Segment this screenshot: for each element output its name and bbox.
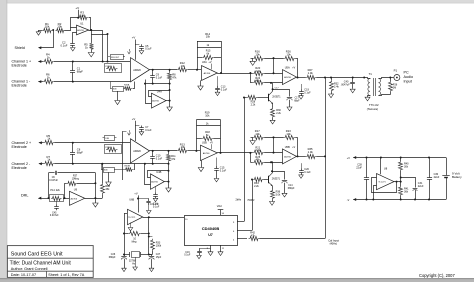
svg-text:+V: +V — [134, 192, 138, 196]
U1 output wire right and down to channel 1 network — [89, 31, 103, 62]
resistor R33 100k — [149, 236, 153, 238]
svg-text:U6B: U6B — [129, 199, 134, 202]
+V terminal battery rail — [353, 156, 356, 159]
svg-text:10k: 10k — [57, 25, 62, 29]
cap C31 22uF on divider mid — [401, 178, 416, 188]
resistor R20 input to U5A — [250, 73, 252, 83]
resistor R6 — [43, 79, 54, 83]
svg-text:0.047uF: 0.047uF — [50, 214, 59, 217]
svg-text:U9: U9 — [74, 188, 78, 192]
svg-text:0.047uF: 0.047uF — [49, 179, 58, 182]
svg-text:0.1uF: 0.1uF — [153, 206, 160, 209]
svg-text:22uF: 22uF — [418, 185, 424, 188]
-V terminal — [353, 198, 356, 201]
resistor R8 47k from output line to ref rail — [169, 70, 171, 73]
svg-text:0.1uF: 0.1uF — [184, 254, 191, 257]
input filter box ch1 lower with resistor R40A — [113, 87, 124, 92]
Q2 collector to U5B input node — [272, 162, 274, 173]
crystal X1 32768 Hz — [124, 254, 130, 256]
U7 pin 4 with resistor R42 to cal output — [237, 238, 247, 240]
summing vertical wire — [325, 78, 327, 239]
cap C26 680pF — [124, 255, 126, 257]
svg-text:PC: PC — [404, 71, 409, 75]
Q2 emitter to R36 and ground — [272, 186, 274, 190]
Q1 collector to U5A input node — [272, 83, 274, 91]
decoupling cap C7 — [135, 125, 139, 127]
op-amp U3B AD706 — [201, 145, 218, 160]
cap C14 with ground — [273, 172, 285, 180]
svg-text:AD706: AD706 — [77, 29, 84, 32]
cap C28 22uF — [366, 157, 368, 159]
Q1 emitter to R30 and ground — [272, 104, 274, 108]
capacitor C1 between channel 1 lines — [72, 62, 74, 71]
left feedback vertical — [124, 213, 127, 215]
wire R1-R2 junction down to shield line — [52, 29, 54, 31]
U4B feedback loop — [148, 171, 169, 178]
ground below ch2 lower box — [108, 172, 110, 182]
feedback verticals — [273, 58, 275, 73]
ground below U6 + input — [130, 223, 132, 228]
svg-text:U7: U7 — [208, 233, 213, 237]
crystal case ground — [135, 257, 137, 267]
op-amp U9 DRL driver — [70, 191, 85, 205]
op-amp U4A reference buffer — [152, 93, 167, 108]
svg-text:2.2k: 2.2k — [276, 112, 281, 115]
svg-text:+V: +V — [210, 142, 213, 145]
svg-text:10k: 10k — [255, 132, 260, 136]
wire channel 2- reference rail — [39, 163, 44, 165]
transistor Q2 2N3571 — [268, 176, 270, 184]
svg-text:Electrode: Electrode — [12, 166, 27, 170]
capacitor C8 between channel 2 lines — [72, 143, 74, 153]
svg-text:R40B: R40B — [125, 166, 131, 168]
svg-text:TLC271: TLC271 — [128, 217, 136, 219]
svg-text:DRL: DRL — [21, 194, 28, 198]
svg-text:Author: Grant Connell: Author: Grant Connell — [11, 267, 48, 271]
safety resistor R13 45k to channel 2- rail — [102, 164, 104, 184]
resistor R12b — [177, 148, 188, 152]
IC U7 CD4040B — [185, 216, 238, 246]
op-amp U8 virtual ground — [380, 157, 382, 159]
ground below R5 — [88, 53, 94, 57]
svg-text:U5A: U5A — [285, 66, 290, 70]
svg-text:0.1uF: 0.1uF — [145, 48, 152, 51]
resistor 10 Meg feedback — [128, 231, 141, 235]
U2B output wire — [150, 150, 178, 152]
svg-text:1M: 1M — [80, 13, 85, 17]
U1 non-inverting input with cap C2 to ground — [73, 33, 77, 42]
vertical to U4B + input — [145, 164, 151, 185]
T1 secondary wires — [379, 78, 394, 79]
svg-text:T1: T1 — [369, 72, 373, 76]
svg-text:U3A: U3A — [202, 61, 207, 64]
resistor R24 — [253, 80, 265, 84]
op-amp U5A AD706 — [283, 70, 297, 85]
svg-text:68pF: 68pF — [294, 100, 300, 103]
channel 1 - terminal — [38, 80, 41, 83]
svg-text:U1: U1 — [80, 21, 84, 25]
svg-text:45k: 45k — [256, 158, 261, 162]
input filter box ch2 lower with resistor R40B — [104, 168, 115, 173]
svg-text:100k: 100k — [156, 244, 162, 247]
wire channel 2+ line — [39, 142, 44, 144]
wire R12 to U3 — [188, 69, 201, 71]
U7 Vdd pin 16 — [220, 210, 222, 215]
svg-text:5.0k: 5.0k — [276, 194, 281, 197]
resistor R21 input to U5B — [250, 153, 252, 162]
svg-text:2.4k: 2.4k — [334, 85, 339, 88]
ground below U4B — [166, 188, 172, 192]
main output line to transformer — [316, 77, 364, 79]
resistor R12 — [177, 67, 188, 71]
-V arrow left of U2B — [129, 130, 131, 133]
U8 inverting input feedback loop — [372, 178, 397, 193]
bottom gray bar — [0, 278, 474, 279]
battery BT1 9V on right vertical — [446, 158, 448, 176]
wire second bootstrap drop — [107, 34, 109, 62]
svg-text:2N3571: 2N3571 — [272, 178, 281, 181]
svg-text:Electrode: Electrode — [12, 145, 27, 149]
svg-text:10Meg: 10Meg — [72, 177, 80, 180]
svg-text:680pF: 680pF — [109, 256, 116, 259]
shield terminal — [38, 46, 41, 49]
resistor R32 to ground on main line — [331, 78, 333, 81]
svg-text:0.1uF: 0.1uF — [220, 169, 227, 172]
svg-text:+V: +V — [347, 157, 350, 160]
svg-text:AD706: AD706 — [71, 197, 78, 200]
resistor R25 — [253, 160, 265, 164]
svg-text:68pF: 68pF — [77, 151, 84, 155]
wire channel 1+ line — [38, 61, 43, 63]
svg-text:Audio: Audio — [404, 75, 414, 79]
svg-text:2.2k: 2.2k — [251, 103, 256, 106]
cal output wire from U7 — [261, 238, 326, 240]
op-amp U5B AD706 — [283, 149, 297, 164]
resistor R11 47k to rail — [168, 151, 170, 154]
svg-text:700Hz: 700Hz — [247, 199, 255, 202]
svg-text:0.1uF: 0.1uF — [145, 129, 152, 132]
svg-text:Meg: Meg — [132, 240, 137, 243]
resistor R27 output — [297, 77, 306, 79]
gain trimpot box ch2 — [105, 145, 122, 154]
svg-text:AD706: AD706 — [284, 156, 291, 159]
svg-text:15pF: 15pF — [156, 256, 162, 259]
resistor R34 at Q2 base — [251, 179, 253, 181]
channel 1 + terminal — [38, 60, 41, 63]
svg-text:P1 10k: P1 10k — [106, 66, 113, 68]
resistor R35 output — [297, 156, 306, 158]
wire into U9 — [63, 198, 69, 200]
op-amp U1 AD706 — [77, 25, 89, 35]
svg-text:(Tamura): (Tamura) — [367, 107, 378, 111]
svg-text:(40Hz): (40Hz) — [330, 243, 338, 246]
cap C19 below U5A — [301, 84, 303, 89]
resistor R16 with ground — [253, 56, 265, 60]
svg-text:Title: Dual Channel AM Unit: Title: Dual Channel AM Unit — [10, 261, 72, 267]
svg-text:AD620: AD620 — [133, 150, 141, 153]
svg-text:Sound Card EEG Unit: Sound Card EEG Unit — [11, 251, 63, 257]
ground below U3B — [201, 161, 203, 168]
svg-text:U5B: U5B — [285, 145, 290, 149]
gain trimpot box ch1 — [105, 64, 122, 73]
svg-text:10k: 10k — [181, 145, 186, 149]
resistor R17 with ground — [253, 135, 265, 139]
svg-text:10k: 10k — [286, 53, 291, 57]
channel 2 - terminal — [39, 162, 42, 165]
svg-text:Electrode: Electrode — [12, 64, 27, 68]
T1 primary return to ground — [368, 96, 371, 98]
feedback verticals ch2 — [273, 137, 275, 152]
cap C13 below U3 output — [217, 76, 219, 86]
op-amp U3 AD706 — [202, 66, 218, 81]
cap C21 below U4B — [155, 187, 157, 193]
cap C45 below input — [56, 201, 58, 204]
U3 output wire to U5A network — [217, 73, 250, 75]
op-amp U4B reference buffer — [151, 174, 165, 189]
svg-text:10k: 10k — [286, 132, 291, 136]
inst amp U2 AD620 — [131, 58, 150, 82]
U8 output to divider mid — [394, 181, 401, 183]
oscillator feedback vertical — [148, 217, 150, 254]
svg-text:68pF: 68pF — [77, 70, 84, 74]
svg-text:1.0k: 1.0k — [308, 71, 314, 75]
svg-text:P2 10k: P2 10k — [106, 147, 113, 149]
decoupling cap C5 — [135, 44, 139, 46]
svg-text:.0047uF: .0047uF — [341, 84, 351, 87]
resistor R5b — [44, 140, 55, 144]
svg-text:10k: 10k — [45, 25, 50, 29]
svg-text:0.1uF: 0.1uF — [61, 43, 68, 47]
resistor R7 — [44, 161, 55, 165]
U7 pin 11 to ground — [220, 245, 222, 252]
svg-text:22uF: 22uF — [356, 166, 362, 169]
resistor R40 30k — [400, 157, 402, 159]
U2 output wire — [150, 69, 178, 71]
svg-text:AD706: AD706 — [151, 181, 158, 184]
ground below ch1 lower box — [117, 91, 119, 101]
channel 1 reference rail — [145, 83, 170, 85]
svg-text:680pF: 680pF — [288, 187, 295, 190]
svg-text:CD4040B: CD4040B — [202, 226, 220, 231]
-V arrow left of U2 — [129, 49, 131, 52]
top gray bar — [0, 0, 474, 3]
svg-text:U4A: U4A — [157, 89, 162, 93]
svg-text:U8: U8 — [384, 166, 388, 170]
U4B output wire — [164, 181, 168, 183]
svg-text:Copyright (C), 2007: Copyright (C), 2007 — [419, 273, 455, 278]
feedback resistor R23 — [273, 136, 275, 138]
ground under C7 — [139, 132, 144, 135]
wire R2 to U1 inverting input — [65, 28, 77, 31]
svg-text:+V: +V — [292, 67, 295, 70]
svg-text:Vdd: Vdd — [217, 204, 222, 208]
svg-text:10k: 10k — [205, 113, 210, 117]
resistor R5 to ground from U1 output — [91, 30, 93, 43]
svg-text:45k: 45k — [256, 78, 261, 82]
svg-text:+V: +V — [132, 117, 136, 121]
svg-text:0.1uF: 0.1uF — [221, 89, 228, 92]
U3B output wire — [217, 152, 250, 154]
svg-text:Input: Input — [404, 80, 412, 84]
input filter box ch2 upper — [105, 136, 115, 141]
feedback resistor R37 10Meg — [64, 183, 66, 198]
U7 pin 6 wire up to Q2 — [237, 230, 252, 232]
svg-text:AD706: AD706 — [203, 152, 210, 155]
svg-text:2.4k: 2.4k — [255, 148, 261, 152]
svg-text:Battery: Battery — [452, 175, 462, 179]
gain ladder ch2 — [196, 120, 198, 151]
U8 non-inverting input from bottom rail — [374, 186, 377, 200]
U4A output wire — [166, 100, 170, 102]
transistor Q1 2N3571 — [268, 94, 270, 102]
svg-text:10k: 10k — [255, 53, 260, 57]
resistor R4 — [43, 59, 54, 63]
input filter box ch1 upper — [111, 55, 124, 60]
svg-text:0.1uF: 0.1uF — [304, 171, 311, 174]
resistor R41 36k — [399, 186, 403, 196]
svg-text:2.4k: 2.4k — [255, 69, 261, 73]
cap C27 15pF — [149, 254, 152, 256]
svg-text:Electrode: Electrode — [12, 84, 27, 88]
svg-text:10k: 10k — [181, 64, 186, 68]
DRL outer feedback loop with cap C6 — [48, 173, 50, 198]
svg-text:Sheet: 1 of 1, Rev 7A: Sheet: 1 of 1, Rev 7A — [48, 273, 85, 277]
gain ladder ch1 — [197, 41, 199, 70]
svg-text:AD706: AD706 — [284, 76, 291, 79]
svg-text:+V: +V — [208, 61, 211, 64]
svg-text:P14: P14 — [50, 189, 55, 192]
svg-text:2kHz: 2kHz — [236, 199, 242, 202]
svg-text:AD706: AD706 — [204, 72, 211, 75]
op-amp U6 TLC271 — [128, 209, 143, 224]
svg-text:U3B: U3B — [202, 142, 207, 145]
svg-text:0.1uF: 0.1uF — [156, 158, 163, 161]
U7 clock input pin 10 — [180, 217, 184, 219]
svg-text:S1B OUT: S1B OUT — [111, 57, 120, 59]
DRL terminal — [38, 197, 41, 200]
svg-text:-V: -V — [347, 199, 350, 202]
input resistor box P14 22k — [50, 195, 64, 202]
ground under C5 — [139, 51, 144, 54]
decoupling cap C24 — [138, 198, 149, 200]
positive rail — [353, 157, 446, 159]
svg-text:AD706: AD706 — [152, 100, 159, 103]
capacitor C9 from U2 output to ref rail — [152, 70, 154, 76]
svg-text:+V: +V — [132, 36, 136, 40]
ground below U9 output — [95, 198, 97, 203]
svg-text:2M: 2M — [393, 86, 396, 89]
svg-text:0.1uF: 0.1uF — [156, 76, 163, 79]
resistor R28 at Q1 base — [243, 97, 245, 99]
vertical to U4A + input — [146, 84, 152, 104]
ground terminal left of R1 — [39, 30, 43, 32]
svg-text:2N3571: 2N3571 — [272, 96, 281, 99]
audio jack P1 — [394, 75, 400, 81]
wire to summing vertical — [316, 156, 325, 158]
cap C30 22uF — [428, 157, 430, 159]
svg-text:10k: 10k — [206, 35, 211, 39]
cap C20 below U5B — [301, 163, 303, 168]
resistor R1 — [42, 28, 52, 32]
left gray band — [0, 0, 6, 282]
inst amp U2B AD620 — [131, 139, 150, 163]
U7 ground pin 8 with cap C16 — [210, 245, 212, 252]
svg-text:TLC271: TLC271 — [378, 182, 386, 184]
svg-text:22uF: 22uF — [434, 176, 440, 179]
svg-text:Date: 10-17-07: Date: 10-17-07 — [11, 273, 36, 277]
ground below U4A — [167, 107, 173, 111]
cap C15 below U3B output — [216, 158, 218, 167]
title block frame — [7, 246, 93, 278]
capacitor C10 from U2B output to rail — [152, 151, 154, 157]
channel 2 + terminal — [39, 141, 42, 144]
wire channel 1- line — [38, 81, 43, 83]
svg-text:P1: P1 — [394, 69, 398, 73]
resistor R2 — [55, 28, 65, 32]
U1 feedback loop with resistor R3 — [71, 18, 79, 28]
U7 pin 9 wire up to Q1 — [237, 221, 244, 223]
svg-text:Cal Input: Cal Input — [328, 238, 339, 242]
U6 output wire to U7 — [143, 217, 180, 219]
ground arrow below U3 — [200, 80, 202, 86]
cap C16 — [199, 248, 211, 250]
svg-text:AD620: AD620 — [133, 69, 141, 72]
svg-text:Shield: Shield — [15, 46, 25, 50]
svg-text:0.1uF: 0.1uF — [304, 92, 311, 95]
U9 output wire — [85, 198, 103, 200]
svg-text:R40A: R40A — [124, 83, 130, 86]
svg-text:2.2k: 2.2k — [254, 185, 259, 188]
svg-text:+V: +V — [292, 146, 295, 149]
U4A feedback loop — [149, 91, 170, 97]
wire bootstrap vertical ch2 — [122, 132, 124, 181]
negative rail — [353, 199, 446, 201]
resistor R38 across secondary — [390, 78, 392, 82]
svg-text:1.0k: 1.0k — [308, 150, 314, 154]
cap C40 to ground — [352, 78, 354, 83]
feedback resistor R26 — [273, 57, 275, 59]
wire R12b to U3B — [188, 150, 200, 152]
